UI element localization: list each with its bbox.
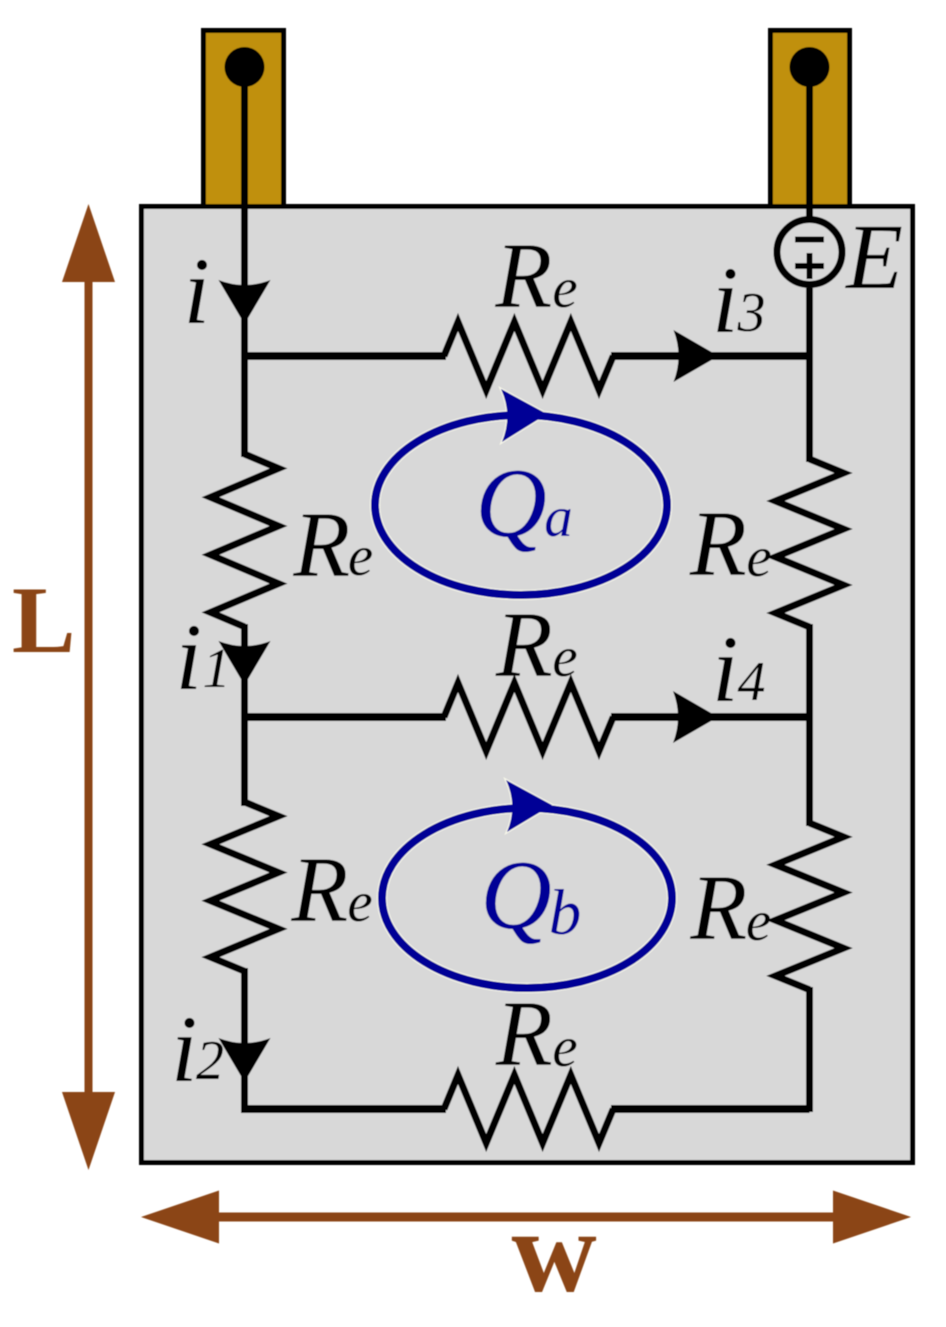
- svg-text:3: 3: [737, 282, 766, 344]
- svg-text:Q: Q: [480, 841, 552, 950]
- svg-text:e: e: [552, 626, 577, 689]
- svg-text:Q: Q: [475, 449, 547, 558]
- svg-text:L: L: [12, 567, 75, 673]
- svg-text:R: R: [495, 983, 553, 1086]
- svg-text:R: R: [495, 594, 553, 697]
- svg-text:i: i: [712, 616, 738, 722]
- svg-text:E: E: [844, 206, 903, 309]
- svg-text:e: e: [746, 890, 771, 953]
- svg-text:e: e: [552, 257, 577, 320]
- svg-text:b: b: [549, 877, 582, 949]
- svg-text:e: e: [348, 525, 373, 588]
- svg-text:R: R: [689, 857, 747, 960]
- svg-text:e: e: [347, 871, 372, 934]
- svg-text:R: R: [494, 225, 552, 328]
- svg-text:2: 2: [196, 1030, 224, 1092]
- svg-text:e: e: [552, 1016, 577, 1079]
- svg-text:i: i: [184, 238, 210, 344]
- svg-text:a: a: [544, 486, 573, 549]
- svg-text:i: i: [171, 996, 197, 1102]
- svg-text:R: R: [290, 839, 348, 942]
- svg-text:R: R: [689, 493, 747, 596]
- svg-text:R: R: [292, 494, 350, 597]
- svg-text:4: 4: [738, 651, 766, 713]
- svg-text:w: w: [512, 1186, 597, 1317]
- svg-text:i: i: [712, 247, 738, 353]
- svg-text:1: 1: [203, 638, 231, 700]
- svg-text:e: e: [746, 526, 771, 589]
- svg-text:i: i: [176, 604, 202, 710]
